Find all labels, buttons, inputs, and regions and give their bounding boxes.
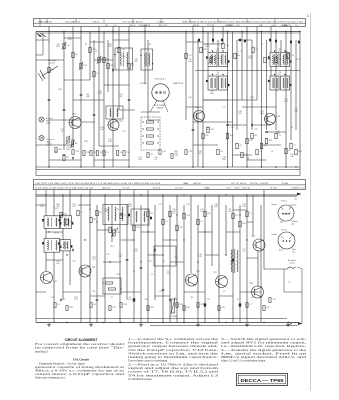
- svg-text:C2: C2: [249, 213, 251, 215]
- svg-text:R9: R9: [288, 150, 290, 152]
- svg-text:0.04: 0.04: [128, 206, 132, 208]
- svg-text:R4: R4: [51, 69, 53, 71]
- svg-text:socket: socket: [289, 261, 295, 264]
- svg-text:C5: C5: [200, 221, 202, 223]
- svg-text:R29: R29: [264, 145, 267, 147]
- svg-text:R23: R23: [249, 140, 252, 142]
- svg-text:VOLUME: VOLUME: [169, 316, 178, 318]
- svg-text:R3: R3: [93, 304, 95, 306]
- svg-text:R22: R22: [112, 307, 115, 309]
- svg-text:R24: R24: [242, 223, 245, 225]
- svg-text:spot: spot: [291, 222, 295, 225]
- svg-text:680 T6: 680 T6: [284, 25, 291, 27]
- svg-text:33K: 33K: [259, 25, 263, 27]
- svg-text:C4: C4: [70, 139, 72, 141]
- svg-text:680 T6: 680 T6: [136, 21, 143, 23]
- svg-text:aerial: aerial: [50, 62, 55, 64]
- svg-text:680: 680: [260, 113, 263, 115]
- svg-text:12K R22 VT3 33K OSC VT3 15K 50: 12K R22 VT3 33K OSC VT3 15K 50 FM R22 L2…: [35, 183, 161, 185]
- svg-text:100: 100: [56, 263, 59, 265]
- svg-text:R2: R2: [57, 304, 59, 306]
- svg-text:R9: R9: [237, 55, 239, 57]
- svg-text:L21: L21: [122, 131, 125, 133]
- svg-text:C6: C6: [120, 152, 122, 154]
- svg-text:FM 1K: FM 1K: [240, 183, 247, 185]
- svg-text:C5: C5: [106, 152, 108, 154]
- svg-text:L27: L27: [296, 59, 299, 61]
- svg-text:R6: R6: [175, 257, 177, 259]
- svg-text:IFT2 10.7: IFT2 10.7: [296, 188, 306, 190]
- svg-text:R7: R7: [100, 152, 102, 154]
- svg-text:0.04: 0.04: [40, 206, 44, 208]
- svg-text:10.7: 10.7: [216, 50, 220, 52]
- svg-text:C1: C1: [89, 209, 91, 211]
- svg-text:R20: R20: [186, 307, 189, 309]
- svg-text:T4: T4: [117, 209, 119, 211]
- svg-text:10.7: 10.7: [278, 50, 282, 52]
- svg-text:560: 560: [238, 113, 241, 115]
- svg-text:470K: 470K: [263, 183, 269, 185]
- svg-text:R2: R2: [80, 212, 82, 214]
- svg-text:L2 56K: L2 56K: [157, 21, 164, 23]
- svg-text:C7: C7: [293, 145, 295, 147]
- svg-text:C29: C29: [136, 227, 139, 229]
- svg-text:C2: C2: [163, 261, 165, 263]
- svg-text:1.5: 1.5: [288, 282, 291, 284]
- svg-text:C23: C23: [186, 215, 189, 217]
- svg-text:R1 4.7K: R1 4.7K: [175, 188, 183, 190]
- svg-text:680: 680: [214, 206, 217, 208]
- svg-text:560: 560: [210, 93, 213, 95]
- svg-text:0.1: 0.1: [155, 159, 158, 161]
- svg-text:R5: R5: [85, 44, 87, 46]
- svg-text:L27: L27: [222, 107, 225, 109]
- svg-text:680: 680: [222, 159, 225, 161]
- svg-text:0.01: 0.01: [74, 299, 78, 301]
- svg-text:FM 1K: FM 1K: [193, 25, 200, 27]
- svg-text:Collector: Collector: [290, 204, 297, 207]
- svg-text:C3: C3: [278, 135, 280, 137]
- svg-text:T20: T20: [122, 56, 125, 58]
- svg-text:C5: C5: [223, 291, 225, 293]
- svg-text:C16: C16: [121, 49, 124, 51]
- svg-text:C8: C8: [266, 307, 268, 309]
- svg-text:R13: R13: [123, 304, 126, 306]
- svg-text:C30: C30: [144, 299, 147, 301]
- svg-text:aerial: aerial: [47, 144, 52, 146]
- svg-text:10.7: 10.7: [216, 74, 220, 76]
- svg-text:12K C31: 12K C31: [242, 188, 251, 190]
- svg-text:T2 2.2K: T2 2.2K: [122, 188, 130, 190]
- svg-text:CAPACITOR: CAPACITOR: [173, 82, 184, 85]
- svg-text:R8: R8: [106, 59, 108, 61]
- svg-text:T2 2.2K: T2 2.2K: [270, 188, 278, 190]
- svg-text:C7: C7: [123, 215, 125, 217]
- svg-text:1M 0.1: 1M 0.1: [93, 21, 100, 23]
- svg-text:R2: R2: [235, 215, 237, 217]
- svg-text:C30: C30: [221, 307, 224, 309]
- svg-text:1M 0.1: 1M 0.1: [129, 25, 136, 27]
- svg-text:470: 470: [166, 273, 169, 275]
- svg-text:R11: R11: [205, 135, 208, 137]
- svg-text:R6: R6: [150, 213, 152, 215]
- svg-text:0.01: 0.01: [100, 129, 104, 131]
- svg-text:Emitter: Emitter: [272, 203, 278, 206]
- svg-text:680: 680: [86, 96, 89, 98]
- svg-text:C16: C16: [188, 97, 191, 99]
- svg-text:R20: R20: [58, 89, 61, 91]
- svg-text:R7: R7: [291, 127, 293, 129]
- svg-text:R22: R22: [58, 149, 61, 151]
- svg-text:L3: L3: [261, 44, 263, 46]
- svg-text:C10: C10: [179, 227, 182, 229]
- svg-text:L11: L11: [158, 291, 161, 293]
- svg-text:R14: R14: [200, 304, 203, 306]
- svg-text:blade type trimming tool.: blade type trimming tool.: [35, 375, 66, 379]
- svg-text:MW LW: MW LW: [193, 183, 201, 185]
- svg-text:R5: R5: [75, 54, 77, 56]
- svg-text:R19: R19: [210, 129, 213, 131]
- svg-text:R2: R2: [93, 291, 95, 293]
- svg-text:Red: Red: [280, 222, 283, 224]
- svg-text:T2 2.2K: T2 2.2K: [207, 25, 215, 27]
- svg-text:R3: R3: [93, 219, 95, 221]
- svg-text:R8: R8: [75, 143, 77, 145]
- svg-text:R1: R1: [239, 145, 241, 147]
- svg-text:22K 100: 22K 100: [250, 183, 259, 185]
- svg-text:RANGE: RANGE: [157, 107, 164, 110]
- svg-text:FM 1K: FM 1K: [228, 25, 235, 27]
- svg-text:T17: T17: [50, 297, 53, 299]
- svg-text:C18: C18: [225, 45, 228, 47]
- svg-text:100: 100: [294, 111, 297, 113]
- svg-text:L2 56K: L2 56K: [128, 21, 135, 23]
- svg-text:L29: L29: [144, 209, 147, 211]
- svg-text:15K: 15K: [231, 183, 235, 185]
- svg-text:TM 2/LA 4.2: TM 2/LA 4.2: [154, 78, 166, 81]
- svg-text:R20: R20: [110, 65, 113, 67]
- svg-text:C26: C26: [86, 152, 89, 154]
- svg-text:L9: L9: [95, 51, 97, 53]
- svg-text:C16: C16: [284, 51, 287, 53]
- svg-text:DECCA — TP65: DECCA — TP65: [241, 378, 285, 383]
- svg-text:C14: C14: [174, 155, 177, 157]
- svg-text:L1: L1: [151, 274, 153, 276]
- svg-text:TR1-5: TR1-5: [281, 201, 288, 203]
- svg-text:C13: C13: [272, 299, 275, 301]
- svg-text:470: 470: [230, 263, 233, 265]
- svg-text:R28: R28: [69, 307, 72, 309]
- svg-text:R25: R25: [250, 97, 253, 99]
- svg-text:C7: C7: [259, 151, 261, 153]
- svg-text:100: 100: [172, 211, 175, 213]
- svg-text:C3: C3: [240, 51, 242, 53]
- svg-text:33K 470K 3.3K 0.1 0.02 FM R1 V: 33K 470K 3.3K 0.1 0.02 FM R1 VT3 1M LW F…: [182, 21, 304, 23]
- svg-text:R19: R19: [116, 232, 119, 234]
- svg-text:C15: C15: [126, 152, 129, 154]
- svg-text:680: 680: [216, 58, 219, 60]
- svg-text:100: 100: [72, 206, 75, 208]
- svg-text:R29: R29: [150, 307, 153, 309]
- svg-text:R2: R2: [191, 297, 193, 299]
- svg-text:L8: L8: [251, 297, 253, 299]
- svg-text:R2: R2: [66, 157, 68, 159]
- svg-text:1: 1: [307, 14, 309, 18]
- svg-text:680 T6: 680 T6: [143, 25, 150, 27]
- svg-text:C29: C29: [83, 65, 86, 67]
- svg-text:L6: L6: [271, 151, 273, 153]
- svg-text:470K: 470K: [234, 188, 240, 190]
- svg-text:spot: spot: [292, 250, 296, 253]
- svg-text:for minimum output.: for minimum output.: [128, 377, 152, 381]
- svg-text:R20: R20: [84, 141, 87, 143]
- svg-text:T2: T2: [63, 299, 65, 301]
- svg-text:C1: C1: [165, 221, 167, 223]
- svg-text:L5: L5: [133, 271, 135, 273]
- svg-text:0.04: 0.04: [205, 46, 209, 48]
- svg-text:T26: T26: [206, 299, 209, 301]
- svg-text:C2: C2: [111, 297, 113, 299]
- svg-text:R8: R8: [93, 152, 95, 154]
- svg-text:C27: C27: [188, 55, 191, 57]
- svg-text:adjust L2 and L1 for maximum o: adjust L2 and L1 for maximum output.: [221, 359, 266, 363]
- svg-text:470: 470: [92, 259, 95, 261]
- svg-text:0.01 470 2.2K R22 VT3 1M 12K L: 0.01 470 2.2K R22 VT3 1M 12K L4 50: [35, 188, 94, 190]
- svg-text:470: 470: [134, 251, 137, 253]
- svg-text:C13: C13: [290, 55, 293, 57]
- svg-text:R19: R19: [230, 135, 233, 137]
- svg-text:R11: R11: [174, 299, 177, 301]
- svg-text:R6: R6: [99, 212, 101, 214]
- svg-text:L32: L32: [186, 204, 189, 206]
- svg-text:+9v: +9v: [294, 199, 297, 201]
- svg-text:T22: T22: [254, 129, 257, 131]
- svg-text:MW LW: MW LW: [102, 188, 110, 190]
- svg-text:Emitter: Emitter: [272, 233, 278, 236]
- svg-text:Base: Base: [279, 250, 283, 252]
- svg-text:R24: R24: [298, 151, 301, 153]
- svg-text:T4 L4: T4 L4: [53, 233, 59, 235]
- svg-text:L23: L23: [230, 127, 233, 129]
- svg-text:470K: 470K: [47, 21, 53, 23]
- svg-text:aerial: aerial: [46, 123, 51, 125]
- svg-text:T11: T11: [148, 261, 151, 263]
- svg-text:C7: C7: [255, 49, 257, 51]
- svg-text:T25: T25: [72, 261, 75, 263]
- svg-text:R1 4.7K: R1 4.7K: [73, 21, 81, 23]
- svg-text:0.01: 0.01: [128, 299, 132, 301]
- svg-text:C8: C8: [220, 151, 222, 153]
- svg-text:C28: C28: [188, 151, 191, 153]
- svg-text:R25: R25: [203, 49, 206, 51]
- svg-text:C26: C26: [244, 154, 247, 156]
- svg-text:C7: C7: [249, 304, 251, 306]
- svg-text:680: 680: [134, 61, 137, 63]
- svg-text:T5 L5: T5 L5: [53, 208, 59, 210]
- svg-text:R19: R19: [179, 304, 182, 306]
- svg-text:C8: C8: [96, 73, 98, 75]
- svg-text:680: 680: [56, 46, 59, 48]
- svg-text:RV1: RV1: [110, 246, 113, 248]
- svg-text:T29: T29: [158, 204, 161, 206]
- svg-text:R4: R4: [150, 154, 152, 156]
- svg-text:R28: R28: [63, 214, 66, 216]
- svg-text:R25: R25: [54, 151, 57, 153]
- svg-text:10.7: 10.7: [278, 74, 282, 76]
- svg-text:TR 6,7: TR 6,7: [281, 230, 288, 232]
- svg-text:R8: R8: [254, 135, 256, 137]
- svg-text:R10: R10: [207, 213, 210, 215]
- svg-text:C.W.500: C.W.500: [140, 83, 147, 85]
- svg-text:C12: C12: [162, 151, 165, 153]
- svg-text:L25: L25: [106, 254, 109, 256]
- svg-text:15K: 15K: [184, 183, 188, 185]
- svg-text:R6: R6: [149, 44, 151, 46]
- svg-text:mantling”).: mantling”).: [35, 349, 49, 353]
- svg-text:C9: C9: [172, 213, 174, 215]
- svg-text:0.01: 0.01: [206, 129, 210, 131]
- svg-text:0.1: 0.1: [243, 251, 246, 253]
- svg-text:C27: C27: [66, 45, 69, 47]
- svg-text:R14 C27: R14 C27: [159, 25, 168, 27]
- svg-text:R15: R15: [69, 221, 72, 223]
- svg-text:C24: C24: [75, 151, 78, 153]
- svg-text:100: 100: [290, 156, 293, 158]
- svg-text:R23: R23: [116, 274, 119, 276]
- svg-text:S1 8.2K: S1 8.2K: [153, 188, 161, 190]
- svg-text:Base: Base: [291, 235, 295, 237]
- svg-text:R28: R28: [269, 140, 272, 142]
- svg-text:C7: C7: [237, 299, 239, 301]
